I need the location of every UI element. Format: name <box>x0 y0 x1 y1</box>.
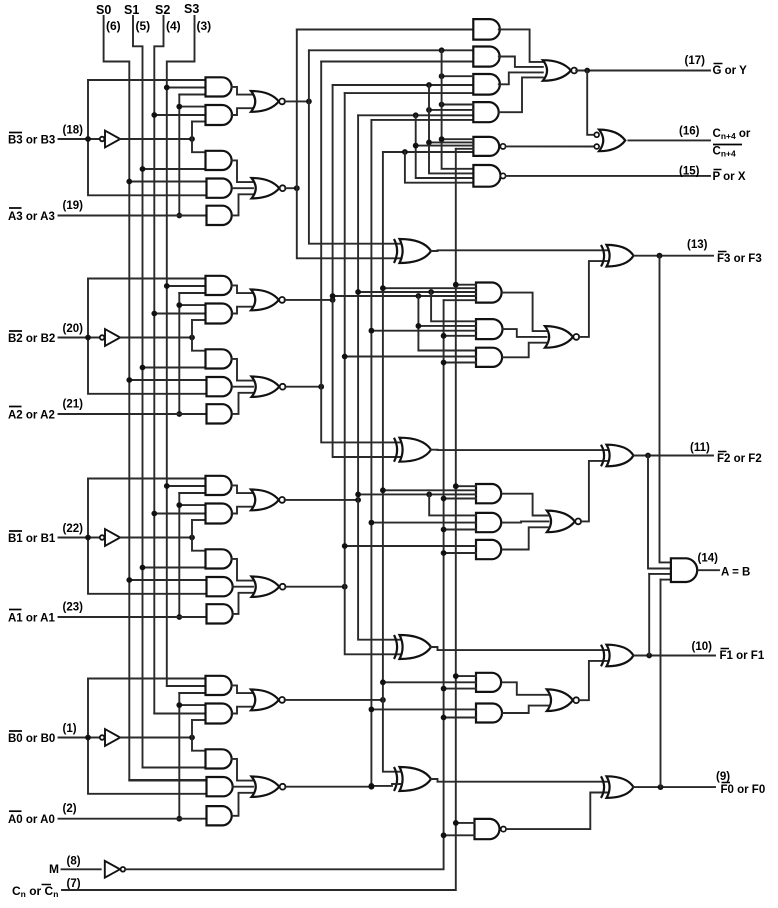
and gate bit1 A4 (S0,B) <box>207 577 233 596</box>
wire F3 output line <box>634 255 714 257</box>
node A0 riser tap <box>176 702 182 708</box>
node Cn to C3-1 <box>453 282 459 288</box>
and gate C3-1 (Cn P0 P1 P2) <box>476 283 502 303</box>
svg-text:B1 or B1: B1 or B1 <box>8 533 56 545</box>
wire C3-2 in Mbar <box>444 335 476 337</box>
xor gate bit1 X1 (P xor G) <box>400 635 432 659</box>
wire bit0 N1 out to P column <box>285 699 383 701</box>
overline on B1 <box>9 530 22 532</box>
svg-text:P or X: P or X <box>713 171 746 183</box>
wire U-A out <box>499 29 543 62</box>
wire A2 riser vertical <box>178 293 180 414</box>
node S0 tap bit1 <box>126 577 132 583</box>
wire B1 feedback riser vertical <box>88 479 207 594</box>
wire C3-N out to X2 bit3 <box>579 261 608 337</box>
wire S3 tap bit0 <box>167 685 206 687</box>
svg-text:B3 or B3: B3 or B3 <box>8 135 55 147</box>
wire G3 column <box>297 30 401 259</box>
wire bit2 N1 out to P column <box>285 299 333 301</box>
wire bit0 A4 out to NOR2 <box>233 786 253 788</box>
wire bit1 N2 out to G column <box>285 586 345 588</box>
wire G output line <box>576 70 710 72</box>
node G0 to X1 bit0 <box>369 783 375 789</box>
wire B0 inverted line <box>120 737 192 739</box>
svg-text:(6): (6) <box>106 19 121 33</box>
overline on B2 <box>9 330 22 332</box>
node P0 source <box>380 697 386 703</box>
svg-text:A3 or A3: A3 or A3 <box>8 211 55 223</box>
node P3 branch to U-D <box>439 102 445 108</box>
node G output junction <box>584 68 590 74</box>
overline on A0 <box>9 810 22 812</box>
wire A=B output line <box>698 569 719 571</box>
wire A2 riser top <box>179 292 205 294</box>
node P1 branch start cluster3 <box>428 289 434 295</box>
wire bit3 A4 out to NOR2 <box>233 187 253 189</box>
node Cn to C0 <box>453 820 459 826</box>
wire A0 to AND2 <box>179 704 205 706</box>
node F0 output junction <box>658 784 664 790</box>
wire G1 column <box>345 93 401 654</box>
wire B2 input line <box>59 337 102 339</box>
wire bit1 X1 out to X2 <box>431 647 608 650</box>
svg-text:Cn or Cn: Cn or Cn <box>12 884 58 899</box>
inverter B2 input buffer <box>100 335 105 340</box>
wire U-D out <box>499 77 543 112</box>
and gate C3-3 (P2 G1 Mbar) <box>476 348 502 367</box>
node G1 to C2-3 <box>342 543 348 549</box>
wire C3-1 out to C3-N <box>503 293 547 332</box>
wire B0 feedback riser vertical <box>88 679 207 794</box>
node S2 tap bit1 <box>151 511 157 517</box>
node S3 tap bit3 <box>164 85 170 91</box>
node P1 branch start cluster2 <box>426 492 432 498</box>
wire U-C in1 from P3 branch <box>442 75 474 77</box>
wire bit1 A2 out to NOR1 <box>232 507 253 514</box>
node S2 tap bit3 <box>151 112 157 118</box>
wire C1-2 in G0 <box>371 708 476 710</box>
wire C0 in Cn <box>456 822 475 824</box>
wire S0 tap bit2 <box>129 379 206 381</box>
wire C1-N out to X2 bit1 <box>579 661 608 700</box>
wire F2 output line <box>634 455 714 457</box>
wire A1 riser vertical <box>178 493 180 617</box>
bubble U-C4 input 1 <box>594 132 599 137</box>
wire C2-3 in Mbar <box>444 552 476 554</box>
and gate bit0 A1 (B,S3,A) <box>206 676 232 695</box>
node B3 inverted junction <box>189 136 195 142</box>
and gate C1-2 (G0 Mbar) <box>476 704 502 723</box>
node P3 tap for branch <box>439 47 445 53</box>
wire S1 tap bit2 <box>143 367 206 369</box>
node S1 tap bit1 <box>140 565 146 571</box>
wire C3-2 in P2 <box>418 325 476 327</box>
node P2 source <box>330 297 336 303</box>
svg-text:A0 or A0: A0 or A0 <box>8 814 55 826</box>
and gate bit0 A4 (S0,B) <box>207 777 233 796</box>
node A3 riser tap <box>176 104 182 110</box>
inverter B3 input buffer <box>100 137 105 142</box>
xor gate bit3 X2 (F3 output) <box>607 245 634 267</box>
node A1 input junction <box>176 614 182 620</box>
svg-text:S3: S3 <box>184 2 199 16</box>
and gate A=B comparator <box>671 558 697 582</box>
wire B2 inverted riser vertical <box>192 320 206 351</box>
svg-text:(8): (8) <box>67 856 81 868</box>
wire C0 out to X2 bit0 <box>506 793 607 830</box>
svg-text:G or Y: G or Y <box>713 65 748 77</box>
wire B1 inverted riser <box>192 519 206 521</box>
node Mbar to C2-1 <box>441 496 447 502</box>
nor gate C3-N (carry into F3) <box>545 326 573 348</box>
node P0 tap for branch <box>402 149 408 155</box>
wire bit0 A5 out to NOR2 <box>233 793 253 816</box>
node P1 to C3-1 <box>355 289 361 295</box>
node S2 tap bit2 <box>151 311 157 317</box>
wire U-P1 in1 P3 <box>442 138 474 140</box>
wire C3-2 out to C3-N <box>503 329 547 337</box>
wire bit3 A1 out to NOR1 <box>232 87 253 95</box>
overline on G <box>714 63 723 65</box>
wire bit3 A5 out to NOR2 <box>233 194 253 215</box>
wire G1 top to AND-C <box>345 92 474 94</box>
wire S2 tap bit0 <box>154 713 205 715</box>
wire C2-1 out to C2-N <box>503 494 549 516</box>
nor gate bit2 N1 (P2 generate) <box>251 290 279 311</box>
wire A0 riser top <box>179 692 205 694</box>
wire bit1 N1 out to P column <box>285 499 359 501</box>
wire bit0 N2 out to G column <box>285 786 371 788</box>
overline on F2 <box>718 451 727 453</box>
svg-text:F0 or F0: F0 or F0 <box>721 784 766 796</box>
nor gate C2-N (carry into F2) <box>547 511 575 533</box>
node P2 branch to U-P1 <box>426 140 432 146</box>
nor gate bit1 N1 (P1 generate) <box>251 490 279 511</box>
wire C2-1 in P0 <box>383 489 476 491</box>
wire G2 column <box>321 62 400 443</box>
wire A3 riser top <box>179 94 205 96</box>
wire P0 branch column <box>405 152 474 183</box>
wire C0 in Mbar <box>444 834 475 836</box>
wire S2 tap bit2 <box>154 313 205 315</box>
node S1 tap bit3 <box>140 166 146 172</box>
wire C3-3 in G1 <box>345 356 476 358</box>
svg-text:(21): (21) <box>63 399 84 411</box>
node Mbar to C2-2 <box>441 527 447 533</box>
wire C2-2 out to C2-N <box>503 521 549 522</box>
wire bit1 A5 out to NOR2 <box>233 593 253 614</box>
overline on first Cn+4 <box>0 0 1 1</box>
bubble C0 output <box>501 827 506 832</box>
node A3 input junction <box>176 213 182 219</box>
wire A2 to AND2 <box>179 304 205 306</box>
wire B1 inverted riser vertical <box>192 520 206 551</box>
wire S0 tap bit0 <box>129 779 206 781</box>
wire B0 feedback riser <box>88 678 206 680</box>
node S3 tap bit2 <box>164 283 170 289</box>
node P2 to C3-1 <box>330 293 336 299</box>
overline on B3 <box>9 132 22 134</box>
wire bit0 A2 out to NOR1 <box>232 707 253 714</box>
wire C3-3 in Mbar <box>444 362 476 364</box>
node P1 branch to U-P1 <box>413 143 419 149</box>
nand gate U-P1 (Cn P0 P1 P2 P3) <box>473 137 499 156</box>
wire B3 feedback riser <box>88 79 206 81</box>
wire B2 feedback riser <box>88 278 206 280</box>
wire B3 inverted riser vertical <box>192 122 206 153</box>
overline on Cn+4bar <box>713 144 742 146</box>
overline on A3 <box>9 207 22 209</box>
node A2 input junction <box>176 411 182 417</box>
wire Cn input line <box>62 149 456 890</box>
node P0 to C2-1 <box>380 487 386 493</box>
wire C2-2 in Mbar <box>444 529 476 531</box>
nor gate bit3 N2 (G3 propagate) <box>252 178 280 198</box>
nor gate U-G (generate output) <box>543 60 571 81</box>
wire F0 output line <box>634 786 716 788</box>
wire B1 input line <box>59 537 102 539</box>
wire A1 to AND2 <box>179 504 205 506</box>
wire P1 branch column <box>416 115 474 178</box>
svg-text:(9): (9) <box>716 771 730 783</box>
wire C3-1 in Cn <box>456 284 476 286</box>
svg-text:(20): (20) <box>63 323 84 335</box>
node S0 tap bit2 <box>126 377 132 383</box>
wire F1 to A=B vertical <box>648 574 650 656</box>
wire S0 column <box>104 16 207 781</box>
xor gate bit1 X2 (F1 output) <box>607 645 634 667</box>
wire S3 column <box>167 16 206 686</box>
and gate U-B (P3 G2 term) <box>473 47 499 67</box>
svg-text:(14): (14) <box>698 553 719 565</box>
wire S2 tap bit3 <box>154 114 205 116</box>
node B2 junction <box>85 335 91 341</box>
wire C1-2 in Mbar <box>444 717 476 719</box>
node P3 branch to U-C <box>439 73 445 79</box>
nand gate U-P2 (P output) <box>473 165 500 187</box>
and gate bit3 A4 (S0,B) <box>207 179 232 198</box>
inverter M <box>105 861 120 878</box>
wire B3 input line <box>59 138 102 140</box>
wire C2-3 in G1 <box>345 545 476 547</box>
wire bit1 A1 out to NOR1 <box>232 485 253 493</box>
svg-text:F3 or F3: F3 or F3 <box>717 253 762 265</box>
node B3 junction <box>85 136 91 142</box>
wire C1-1 out to C1-N <box>503 682 549 695</box>
wire C1-1 in P0 <box>383 681 476 683</box>
overline on F0 <box>722 782 731 784</box>
svg-text:(2): (2) <box>63 803 77 815</box>
and gate bit3 A5 (A) <box>207 206 232 225</box>
svg-text:(16): (16) <box>679 126 700 138</box>
wire M input line <box>62 868 101 870</box>
node P1 source <box>355 497 361 503</box>
and gate C2-1 (Cn P0 P1 Mbar) <box>476 484 501 503</box>
svg-text:(5): (5) <box>136 19 151 33</box>
wire P0 column <box>383 152 401 772</box>
and gate U-A (G3 term) <box>473 19 500 39</box>
node Mbar to C2-3 <box>441 550 447 556</box>
wire C1-1 in Cn <box>456 675 476 677</box>
svg-text:(18): (18) <box>63 125 84 137</box>
svg-text:A = B: A = B <box>721 567 750 579</box>
nor gate bit1 N2 (G1 propagate) <box>252 577 280 597</box>
wire U-B out <box>499 57 543 67</box>
svg-text:(4): (4) <box>166 19 181 33</box>
and gate C2-3 (G1 Mbar) <box>476 540 501 559</box>
wire S1 tap bit1 <box>143 567 206 569</box>
wire P1 column <box>358 115 400 639</box>
and gate C2-2 (P1 G0 Mbar) <box>476 513 501 532</box>
node P3 branch to U-P1 <box>439 136 445 142</box>
overline on A2 <box>9 406 22 408</box>
wire U-C out <box>499 72 543 84</box>
node B1 junction <box>85 535 91 541</box>
svg-text:(11): (11) <box>690 442 710 454</box>
svg-text:(22): (22) <box>63 523 84 535</box>
and gate C1-1 (Cn P0 Mbar) <box>476 673 501 692</box>
and gate U-C (P3 P2 G1 term) <box>473 74 500 95</box>
node G3 source <box>294 185 300 191</box>
wire B1 feedback riser <box>88 478 206 480</box>
wire C2-2 in G0 <box>371 522 476 524</box>
node Mbar to C0 <box>441 832 447 838</box>
svg-text:S1: S1 <box>124 3 139 17</box>
and gate bit0 A2 (A,S2,Bbar) <box>206 704 233 724</box>
wire bit2 A4 out to NOR2 <box>233 386 253 388</box>
wire G0 top to AND-D <box>371 119 473 121</box>
wire U-D in1 from P3 branch <box>442 104 474 106</box>
wire A3 to AND2 <box>179 106 205 108</box>
svg-text:F1 or F1: F1 or F1 <box>720 650 765 662</box>
xor gate bit2 X1 (P xor G) <box>400 438 432 462</box>
wire U-D in2 from P2 branch <box>429 109 473 111</box>
wire B3 inverted riser <box>192 121 206 123</box>
node A2 riser tap <box>176 302 182 308</box>
wire B2 feedback riser vertical <box>88 279 207 394</box>
node Cn to C1-1 <box>453 673 459 679</box>
node G0 source <box>369 784 375 790</box>
node B0 inverted junction <box>189 735 195 741</box>
and gate bit0 A5 (A) <box>207 806 232 825</box>
and gate U-D (P3 P2 P1 G0 term) <box>473 102 498 122</box>
inverter B1 input buffer <box>100 535 105 540</box>
node P2 branch start cluster3 <box>416 293 422 299</box>
wire bit2 A3 out to NOR2 <box>232 359 253 381</box>
wire C3-2 in G0 <box>371 330 476 332</box>
node P2 branch to U-D <box>426 107 432 113</box>
svg-text:(23): (23) <box>63 602 84 614</box>
wire C2-N out to X2 bit2 <box>581 461 608 522</box>
wire bit3 A3 out to NOR2 <box>232 160 253 182</box>
wire P2 branch column <box>429 85 473 173</box>
wire P2 column <box>333 85 401 457</box>
node A1 riser tap <box>176 502 182 508</box>
wire C1-1 in Mbar <box>444 688 476 690</box>
wire P1 branch cluster2 <box>429 494 476 515</box>
wire S1 tap bit3 <box>143 168 206 170</box>
wire P output line <box>506 175 710 177</box>
wire G2 top to AND-B <box>321 61 473 63</box>
node S3 tap bit1 <box>164 483 170 489</box>
wire B0 inverted riser vertical <box>192 720 206 751</box>
wire Cn+4 output line <box>628 139 710 141</box>
and gate bit2 A4 (S0,B) <box>207 377 232 396</box>
svg-text:(17): (17) <box>685 55 706 67</box>
node G0 to C3-2 <box>369 328 375 334</box>
node Mbar to C1-1 <box>441 686 447 692</box>
overline on P <box>714 169 722 171</box>
wire U-A input <box>297 29 474 31</box>
svg-text:A2 or A2: A2 or A2 <box>8 410 55 422</box>
wire B0 input line <box>59 737 102 739</box>
and gate bit1 A3 (Bbar,S1) <box>206 549 232 568</box>
svg-text:(19): (19) <box>63 200 84 212</box>
svg-text:M: M <box>49 862 59 876</box>
wire F1 to A=B <box>649 573 671 575</box>
wire C2-1 in Mbar <box>444 498 476 500</box>
inverter B0 input buffer <box>100 735 105 740</box>
wire S3 tap bit2 <box>167 285 206 287</box>
and gate bit2 A2 (A,S2,Bbar) <box>206 304 233 324</box>
wire B1 inverted line <box>120 537 192 539</box>
svg-text:F2 or F2: F2 or F2 <box>717 453 762 465</box>
wire B2 inverted line <box>120 337 192 339</box>
wire bit2 A1 out to NOR1 <box>232 285 253 293</box>
node G1 source <box>342 584 348 590</box>
wire F1 output line <box>634 655 716 657</box>
xor gate bit3 X1 (P xor G) <box>400 239 432 263</box>
wire U-P1 out to carry NOR <box>506 145 594 147</box>
svg-text:S0: S0 <box>96 3 111 17</box>
xor gate bit0 X2 (F0 output) <box>607 776 634 798</box>
wire F0 to A=B <box>661 579 671 581</box>
wire B3 feedback riser vertical <box>88 80 207 195</box>
wire bit0 X1 lower input from G0 <box>371 784 400 786</box>
node B1 inverted junction <box>189 535 195 541</box>
wire U-P1 in4 Cn <box>456 148 474 150</box>
wire S1 tap bit0 <box>143 767 206 769</box>
nor gate bit0 N1 (P0 generate) <box>251 690 279 711</box>
xor gate bit2 X2 (F2 output) <box>607 445 634 467</box>
wire A3 riser vertical <box>178 95 180 216</box>
wire Mbar line <box>125 300 443 869</box>
wire P2 top to AND-C <box>333 84 474 86</box>
overline on B0 <box>9 730 22 732</box>
wire P1 top to AND-D <box>358 114 473 116</box>
svg-text:(3): (3) <box>197 19 212 33</box>
svg-text:(15): (15) <box>679 166 700 178</box>
bubble U-P2 output <box>500 173 505 178</box>
wire G to carry NOR <box>587 71 594 135</box>
overline on F3 <box>718 251 727 253</box>
nor gate bit3 N1 (P3 generate) <box>251 91 279 112</box>
wire C2-1 in Cn <box>456 485 476 487</box>
wire P3 top to AND-B <box>309 49 473 51</box>
wire bit0 X1 out to X2 <box>431 779 608 782</box>
wire A0 riser vertical <box>178 693 180 819</box>
svg-text:B2 or B2: B2 or B2 <box>8 333 55 345</box>
wire C3-1 in P1 <box>358 291 476 293</box>
wire bit1 A4 out to NOR2 <box>233 586 253 588</box>
wire C3-1 in P0 <box>383 287 476 289</box>
node P1 tap for branch <box>413 112 419 118</box>
node F3 output junction <box>657 253 663 259</box>
wire C3-1 in Mbar <box>444 299 476 301</box>
node Mbar to C3-3 <box>441 360 447 366</box>
svg-text:(10): (10) <box>692 641 713 653</box>
node F1 output junction <box>646 653 652 659</box>
